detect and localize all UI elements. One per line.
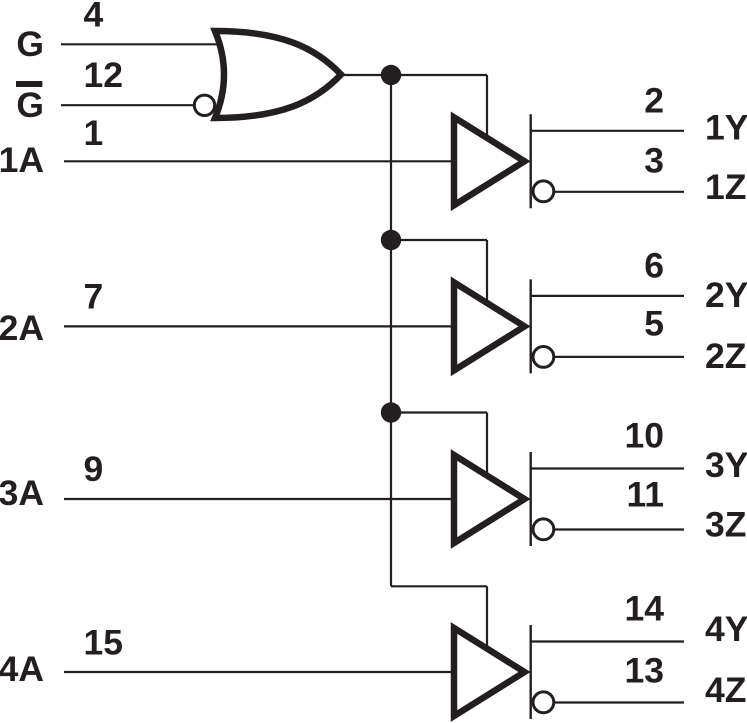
node: junction dot 3 (381, 402, 401, 422)
svg-text:12: 12 (84, 55, 124, 95)
wire: G input (pin 4) (61, 43, 221, 45)
wire: enable trunk vertical (390, 75, 392, 586)
output bar buffer 2 (530, 279, 532, 373)
driver buffer 3 (454, 455, 525, 543)
svg-text:3: 3 (644, 140, 664, 180)
svg-text:3Y: 3Y (705, 445, 747, 485)
inversion bubble 4Z (533, 692, 554, 713)
wire: enable net from OR gate output to junction 1 (341, 74, 391, 76)
wire: enable stub row 3 vertical into buffer 3 (486, 413, 488, 476)
wire: enable stub row 2 horizontal (391, 239, 487, 241)
wire: 2Y output (pin 6) (531, 295, 684, 297)
svg-text:2: 2 (644, 80, 664, 120)
node: junction dot 1 (381, 65, 401, 85)
wire: 1A input (pin 1) (64, 160, 454, 162)
svg-text:7: 7 (84, 276, 104, 316)
svg-text:2A: 2A (0, 308, 44, 348)
wire: 4A input (pin 15) (64, 671, 454, 673)
wire: 3A input (pin 9) (64, 498, 454, 500)
node: junction dot 2 (381, 230, 401, 250)
wire: 1Z output (pin 3) (554, 191, 685, 193)
driver buffer 1 (454, 117, 525, 205)
svg-text:9: 9 (84, 449, 104, 489)
wire: enable stub row 3 horizontal (391, 411, 487, 413)
driver buffer 4 (454, 628, 525, 716)
svg-text:14: 14 (625, 589, 665, 629)
svg-text:10: 10 (625, 416, 665, 456)
svg-text:3Z: 3Z (705, 504, 746, 544)
inversion bubble 3Z (533, 519, 554, 540)
wire: 2A input (pin 7) (64, 325, 454, 327)
svg-text:4Z: 4Z (705, 670, 746, 710)
svg-text:1: 1 (84, 113, 104, 153)
svg-text:1Y: 1Y (705, 108, 747, 148)
svg-text:5: 5 (644, 304, 664, 344)
svg-text:4: 4 (84, 0, 104, 34)
svg-text:11: 11 (626, 475, 664, 515)
svg-text:13: 13 (625, 651, 665, 691)
inversion bubble on G-bar input (194, 95, 214, 115)
wire: enable stub row 2 vertical into buffer 2 (486, 240, 488, 302)
wire: enable stub row 4 vertical into buffer 4 (486, 586, 488, 648)
svg-text:4Y: 4Y (705, 609, 747, 649)
wire: 2Z output (pin 5) (554, 356, 685, 358)
svg-text:G: G (16, 24, 44, 64)
wire: 3Y output (pin 10) (531, 467, 684, 469)
svg-text:1A: 1A (0, 140, 44, 180)
OR gate U1 (enable gate) (215, 31, 341, 118)
output bar buffer 4 (530, 625, 532, 719)
inversion bubble 1Z (533, 181, 554, 202)
label G-bar overbar (16, 81, 42, 87)
svg-text:2Y: 2Y (705, 275, 747, 315)
svg-text:G: G (16, 85, 44, 125)
svg-text:2Z: 2Z (705, 336, 746, 376)
wire: 3Z output (pin 11) (554, 528, 685, 530)
wire: 4Z output (pin 13) (554, 701, 685, 703)
output bar buffer 3 (530, 452, 532, 546)
inversion bubble 2Z (533, 347, 554, 368)
svg-text:15: 15 (84, 623, 124, 663)
wire: 4Y output (pin 14) (531, 640, 684, 642)
wire: enable stub row 1 horizontal (391, 74, 487, 76)
svg-text:3A: 3A (0, 473, 44, 513)
wire: 1Y output (pin 2) (531, 130, 684, 132)
svg-text:4A: 4A (0, 649, 44, 689)
svg-text:6: 6 (644, 245, 664, 285)
wire: G-bar input (pin 12) (61, 104, 196, 106)
wire: enable elbow row 4 horizontal (391, 585, 487, 587)
svg-text:1Z: 1Z (705, 167, 746, 207)
output bar buffer 1 (530, 114, 532, 208)
driver buffer 2 (454, 282, 525, 370)
wire: enable stub row 1 vertical into buffer 1 (486, 75, 488, 137)
